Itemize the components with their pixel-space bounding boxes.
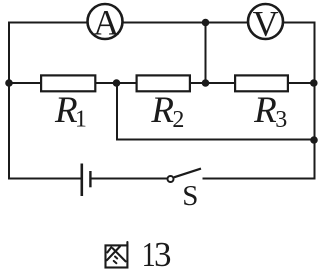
wire bottom left (9, 178, 80, 180)
svg-text:S: S (182, 180, 198, 212)
voltmeter V circle (248, 4, 283, 39)
wire battery to switch (92, 178, 167, 180)
svg-text:3: 3 (275, 107, 287, 133)
battery cell long plate (81, 164, 84, 197)
wire right (314, 23, 316, 179)
caption hanzi tu (figure) drawn as strokes (106, 242, 128, 268)
svg-text:2: 2 (172, 107, 184, 133)
switch S pivot circle (168, 176, 174, 182)
switch S blade (174, 169, 201, 178)
svg-text:R: R (150, 90, 174, 131)
wire R1-R2 junction down to middle wire (117, 83, 315, 140)
ammeter A circle (88, 4, 123, 39)
resistor R1 box (41, 75, 95, 91)
svg-text:R: R (253, 90, 277, 131)
wire node2 vertical (205, 23, 207, 84)
svg-text:A: A (93, 2, 119, 42)
svg-text:3: 3 (154, 235, 172, 272)
svg-text:V: V (253, 4, 279, 44)
wire left (8, 23, 10, 179)
svg-text:1: 1 (75, 107, 87, 133)
battery cell short plate (89, 171, 91, 187)
wire switch to right (204, 178, 315, 180)
node dot R3 right on right wire (310, 79, 318, 87)
node dot left (wire-left / resistor row) (5, 79, 13, 87)
resistor R3 box (235, 75, 288, 91)
resistor R2 box (137, 75, 190, 91)
wire resistor row (9, 82, 314, 84)
wire top (9, 22, 315, 24)
node dot top wire junction (202, 19, 210, 27)
node dot middle wire on right wire (310, 136, 318, 144)
node dot R2-R3 junction (202, 79, 210, 87)
node dot R1-R2 junction (113, 79, 121, 87)
